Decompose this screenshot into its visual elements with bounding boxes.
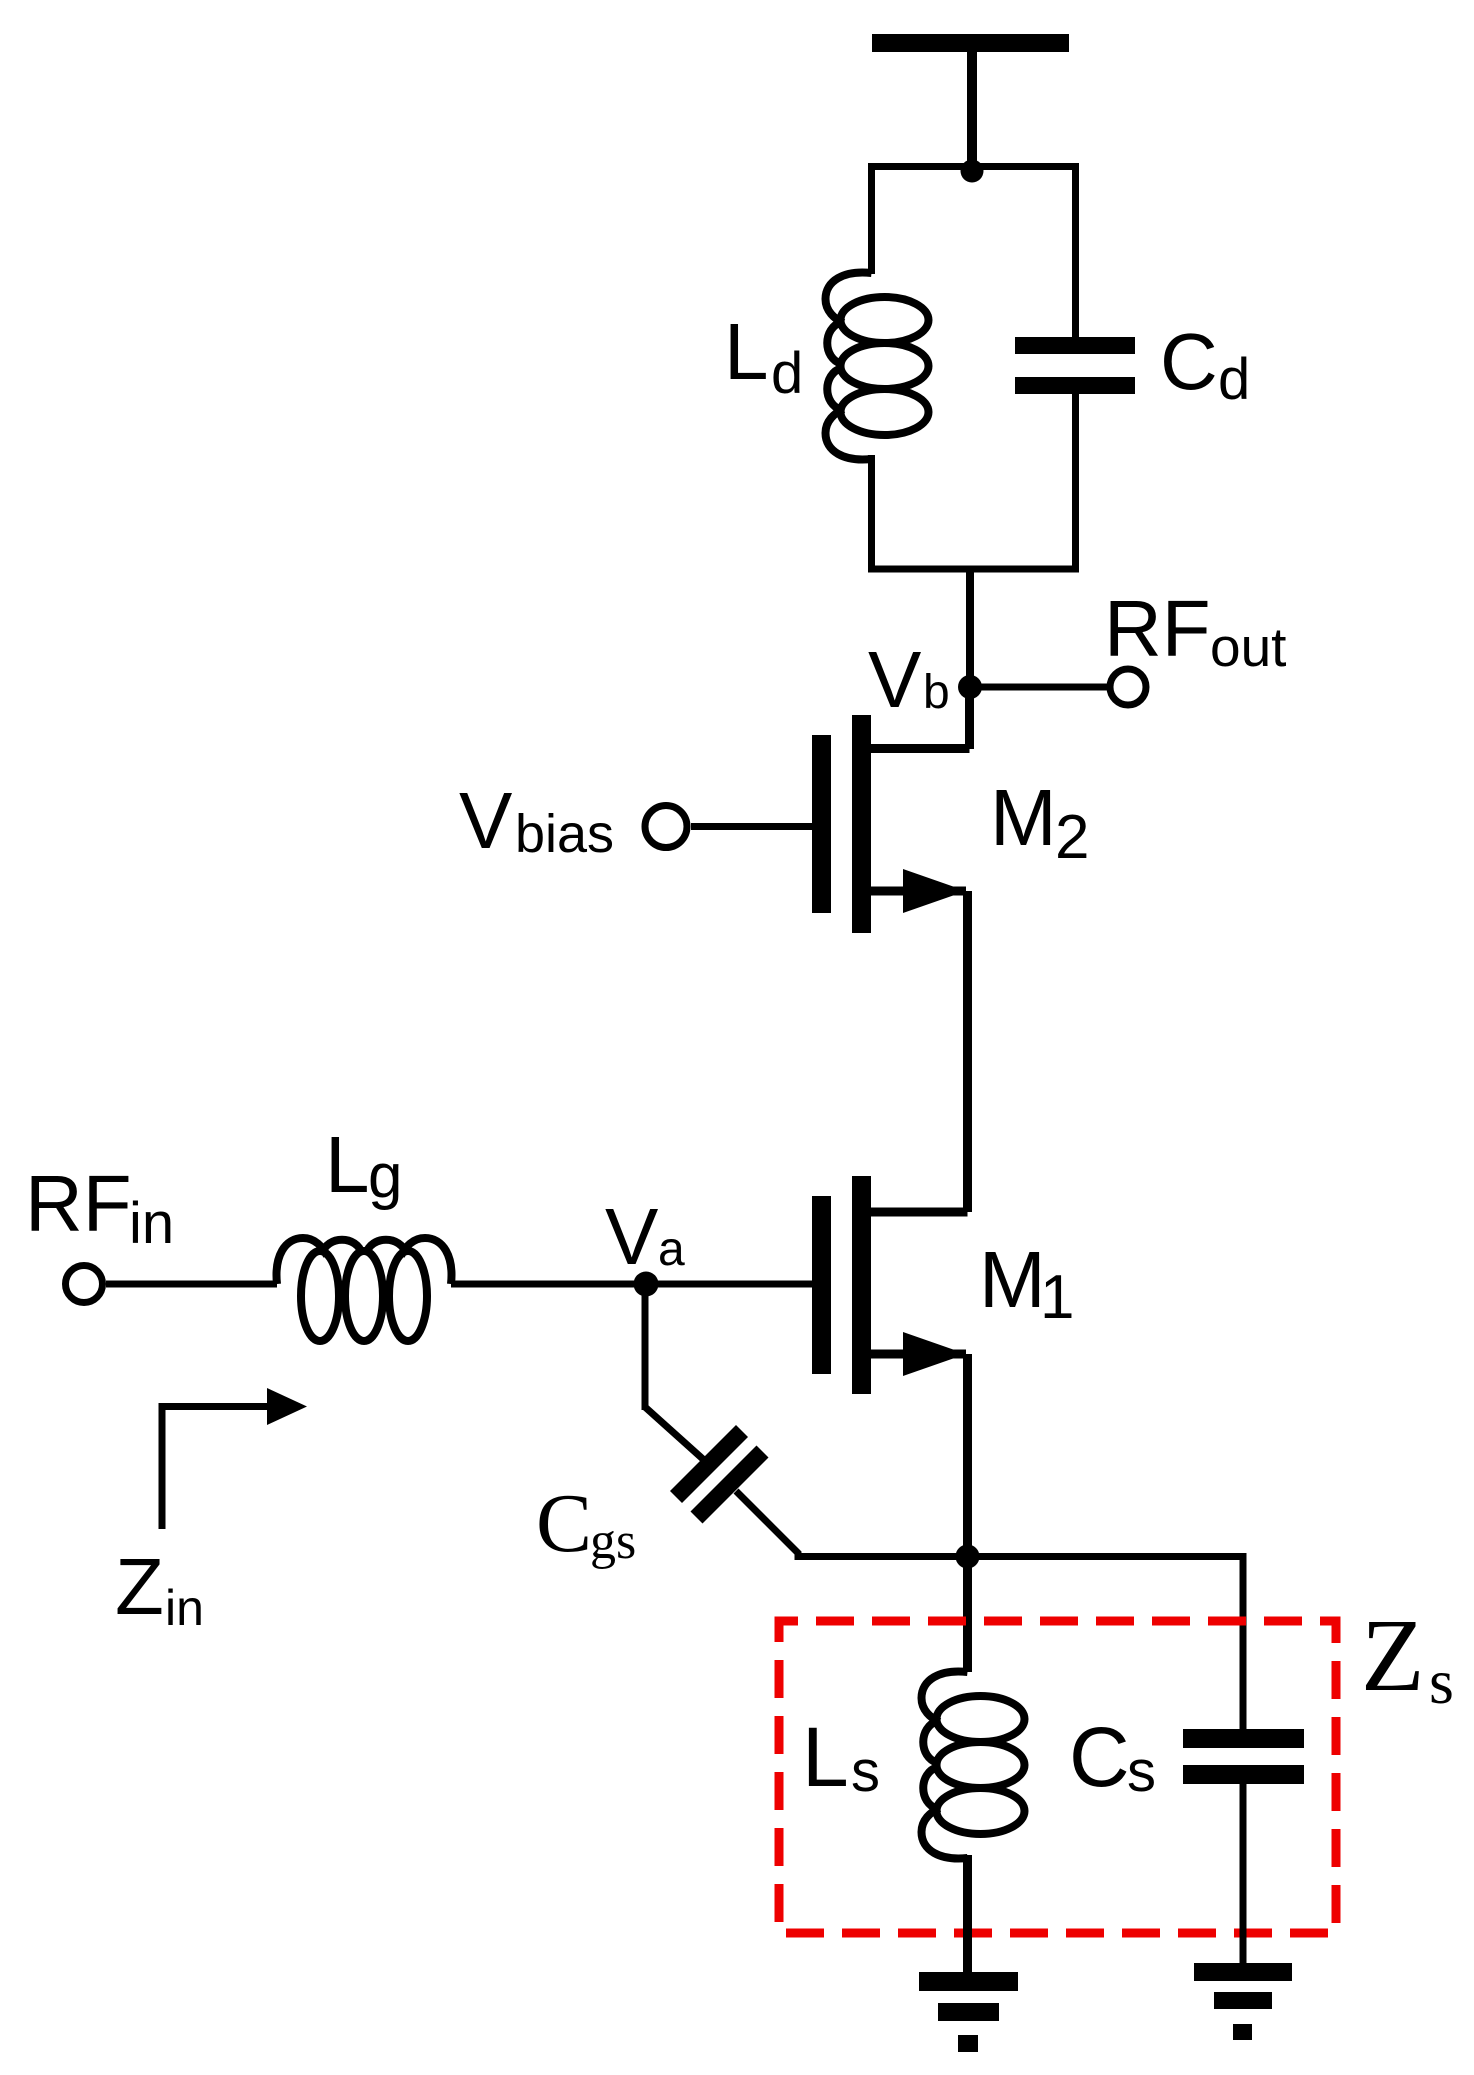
- svg-text:Vbias: Vbias: [459, 776, 614, 865]
- svg-text:Lg: Lg: [325, 1120, 402, 1211]
- svg-text:Cd: Cd: [1160, 317, 1250, 412]
- svg-text:Va: Va: [605, 1192, 685, 1281]
- svg-text:RFin: RFin: [25, 1159, 174, 1256]
- svg-text:Vb: Vb: [868, 635, 950, 724]
- svg-text:M1: M1: [979, 1235, 1074, 1332]
- svg-text:Ls: Ls: [802, 1710, 880, 1804]
- svg-text:Zin: Zin: [115, 1542, 204, 1636]
- svg-text:Cgs: Cgs: [536, 1477, 636, 1570]
- svg-text:Zs: Zs: [1361, 1598, 1454, 1717]
- svg-text:Cs: Cs: [1069, 1710, 1156, 1804]
- svg-text:M2: M2: [990, 773, 1089, 872]
- svg-text:RFout: RFout: [1104, 584, 1286, 678]
- svg-text:Ld: Ld: [724, 307, 803, 406]
